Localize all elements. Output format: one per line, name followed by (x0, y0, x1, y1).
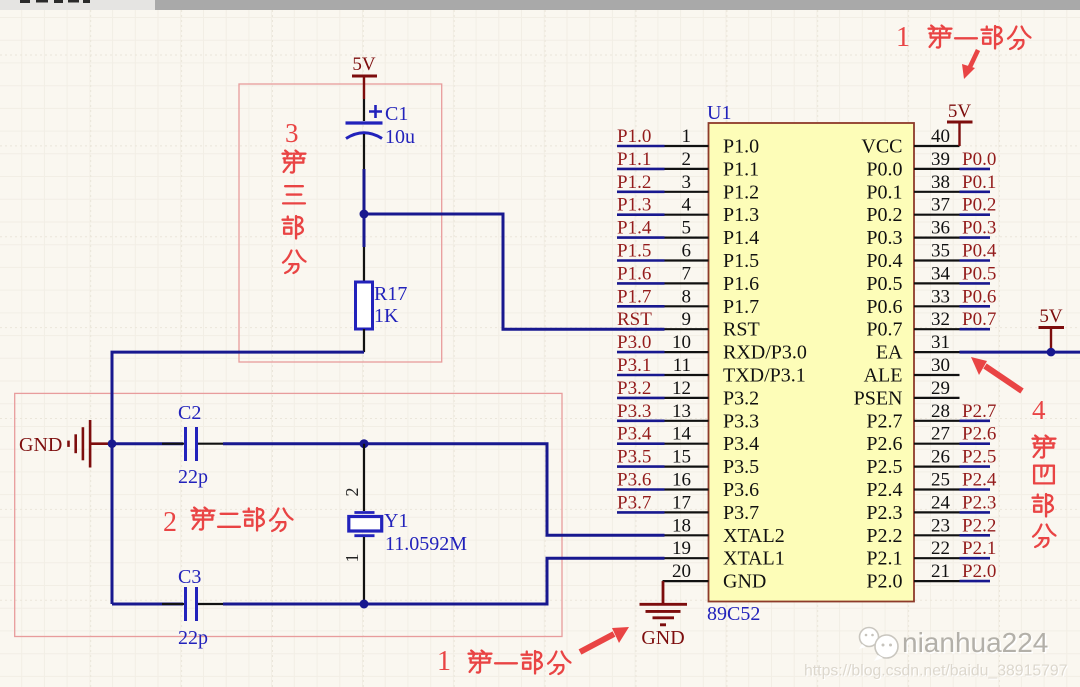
ground at pin 20 (640, 581, 688, 649)
crystal Y1 11.0592M (342, 444, 467, 604)
pin 34 P0.5 (866, 263, 959, 295)
pin 12 P3.2 (665, 378, 760, 410)
pin 30 ALE (864, 355, 960, 387)
capacitor C2 22p (112, 402, 223, 488)
pin 33 P0.6 (866, 286, 959, 318)
svg-text:1: 1 (896, 22, 910, 53)
pin 7 P1.6 (665, 263, 760, 295)
svg-text:P3.7: P3.7 (723, 502, 759, 524)
svg-text:P2.3: P2.3 (866, 502, 902, 524)
net label P2.4 (960, 470, 997, 491)
power 5V at EA (1039, 306, 1065, 352)
svg-text:P3.3: P3.3 (617, 401, 651, 422)
svg-text:10u: 10u (385, 126, 415, 148)
wire node to RST pin (364, 214, 665, 329)
svg-text:19: 19 (672, 538, 691, 559)
wire node to R17 (363, 214, 366, 247)
svg-text:P0.0: P0.0 (866, 158, 902, 180)
svg-text:37: 37 (931, 195, 950, 216)
net label P1.6 (617, 263, 665, 284)
pin 8 P1.7 (665, 286, 760, 318)
arrow to 5V (962, 50, 978, 79)
svg-text:2: 2 (682, 149, 692, 170)
wire net P1.2 (617, 191, 665, 194)
wire net P0.5 (960, 282, 991, 285)
svg-text:P0.6: P0.6 (866, 296, 902, 318)
svg-text:P1.4: P1.4 (723, 227, 759, 249)
svg-text:20: 20 (672, 561, 691, 582)
pin 19 XTAL1 (665, 538, 785, 570)
wire net P1.6 (617, 282, 665, 285)
svg-text:24: 24 (931, 492, 951, 513)
svg-text:P2.0: P2.0 (866, 571, 902, 593)
net label P1.3 (617, 195, 665, 216)
svg-text:P1.7: P1.7 (617, 286, 651, 307)
net label P1.2 (617, 172, 665, 193)
svg-text:nianhua224: nianhua224 (902, 627, 1048, 658)
pin 13 P3.3 (665, 401, 760, 433)
net label P2.5 (960, 447, 997, 468)
node crystal top junction (360, 439, 369, 448)
net label P2.6 (960, 424, 997, 445)
wire net P2.5 (960, 465, 991, 468)
svg-text:P2.2: P2.2 (866, 525, 902, 547)
annotation box part 3 (239, 84, 442, 362)
svg-text:1K: 1K (374, 305, 399, 327)
svg-text:P1.2: P1.2 (617, 172, 651, 193)
net label P0.0 (960, 149, 997, 170)
annotation 2 second part (163, 507, 292, 538)
svg-text:Y1: Y1 (384, 510, 408, 532)
svg-text:14: 14 (672, 424, 692, 445)
wire C3 to XTAL1 (223, 558, 665, 604)
net label P3.3 (617, 401, 665, 422)
pin 40 VCC (861, 126, 959, 158)
svg-text:15: 15 (672, 447, 691, 468)
svg-text:5V: 5V (948, 101, 972, 122)
pin 11 TXD/P3.1 (665, 355, 806, 387)
svg-text:22p: 22p (178, 627, 208, 649)
svg-text:5: 5 (682, 218, 692, 239)
pin 14 P3.4 (665, 424, 760, 456)
svg-text:P0.1: P0.1 (962, 172, 996, 193)
resistor R17 1K (356, 247, 408, 352)
net label P1.0 (617, 126, 665, 147)
pin 28 P2.7 (866, 401, 959, 433)
wire net P2.7 (960, 419, 991, 422)
svg-text:P3.5: P3.5 (723, 456, 759, 478)
pin 2 P1.1 (665, 149, 760, 181)
pin 17 P3.7 (665, 492, 760, 524)
watermark logo (859, 628, 898, 662)
svg-text:P1.4: P1.4 (617, 218, 652, 239)
designator U1 (707, 102, 731, 124)
wire net P3.6 (617, 488, 665, 491)
svg-text:P3.1: P3.1 (617, 355, 651, 376)
svg-text:P2.4: P2.4 (962, 470, 997, 491)
svg-text:2: 2 (342, 488, 362, 497)
svg-text:1: 1 (342, 554, 362, 563)
annotation box part 2 (15, 393, 562, 636)
net label P2.0 (960, 561, 997, 582)
svg-text:5V: 5V (352, 54, 376, 75)
svg-text:4: 4 (682, 195, 692, 216)
svg-text:U1: U1 (707, 102, 731, 124)
wire net P1.4 (617, 236, 665, 239)
wire net P3.2 (617, 397, 665, 400)
wire net P2.1 (960, 557, 991, 560)
node RST net junction (360, 210, 369, 219)
svg-text:P1.5: P1.5 (617, 241, 651, 262)
svg-text:2: 2 (163, 507, 177, 538)
svg-text:23: 23 (931, 515, 950, 536)
svg-text:1: 1 (437, 646, 451, 677)
wire net P3.1 (617, 374, 665, 377)
svg-text:40: 40 (931, 126, 950, 147)
svg-text:10: 10 (672, 332, 691, 353)
net label P1.7 (617, 286, 665, 307)
svg-text:RXD/P3.0: RXD/P3.0 (723, 342, 807, 364)
wire net P1.5 (617, 259, 665, 262)
pin 23 P2.2 (866, 515, 959, 547)
value label 89C52 (707, 603, 760, 625)
svg-text:XTAL2: XTAL2 (723, 525, 785, 547)
pin 35 P0.4 (866, 241, 959, 273)
svg-text:P3.0: P3.0 (617, 332, 651, 353)
wire net P3.0 (617, 351, 665, 354)
net label P0.1 (960, 172, 997, 193)
watermark text (804, 627, 1069, 681)
svg-text:38: 38 (931, 172, 950, 193)
svg-text:P0.2: P0.2 (962, 195, 996, 216)
svg-text:P2.6: P2.6 (866, 433, 902, 455)
wire net P3.7 (617, 511, 665, 514)
svg-text:P1.0: P1.0 (723, 136, 759, 158)
svg-text:https://blog.csdn.net/baidu_38: https://blog.csdn.net/baidu_38915797 (804, 663, 1068, 680)
wire net P0.6 (960, 305, 991, 308)
pin 18 XTAL2 (665, 515, 785, 547)
svg-text:12: 12 (672, 378, 691, 399)
capacitor C1 10u (346, 99, 416, 169)
svg-text:22: 22 (931, 538, 950, 559)
wire net P3.4 (617, 442, 665, 445)
svg-text:P0.7: P0.7 (866, 319, 902, 341)
svg-text:GND: GND (641, 627, 684, 649)
svg-text:GND: GND (19, 434, 62, 456)
svg-text:P2.7: P2.7 (866, 410, 902, 432)
wire net P2.6 (960, 442, 991, 445)
svg-text:6: 6 (682, 241, 692, 262)
svg-text:P2.5: P2.5 (866, 456, 902, 478)
svg-text:33: 33 (931, 286, 950, 307)
pin 29 PSEN (854, 378, 960, 410)
svg-text:29: 29 (931, 378, 950, 399)
wire net P1.7 (617, 305, 665, 308)
svg-text:P1.0: P1.0 (617, 126, 651, 147)
annotation 1 first part top (896, 22, 1030, 53)
power 5V at C1 (352, 54, 377, 99)
svg-text:18: 18 (672, 515, 691, 536)
ground GND net left (19, 420, 112, 468)
svg-text:21: 21 (931, 561, 950, 582)
net label P0.5 (960, 263, 997, 284)
wire net P2.2 (960, 534, 991, 537)
svg-text:35: 35 (931, 241, 950, 262)
net label P3.7 (617, 492, 665, 513)
svg-text:P3.2: P3.2 (723, 387, 759, 409)
node EA junction (1047, 348, 1056, 357)
svg-text:EA: EA (876, 342, 903, 364)
op-amp U1 89C52 chip body (709, 123, 915, 602)
svg-text:ALE: ALE (864, 365, 903, 387)
power 5V at pin 40 (947, 101, 973, 146)
net label P2.2 (960, 515, 997, 536)
svg-text:39: 39 (931, 149, 950, 170)
svg-text:9: 9 (682, 309, 692, 330)
wire net P2.4 (960, 488, 991, 491)
net label P3.0 (617, 332, 665, 353)
svg-text:GND: GND (723, 571, 766, 593)
svg-text:11.0592M: 11.0592M (385, 533, 467, 555)
net label P3.1 (617, 355, 665, 376)
svg-text:28: 28 (931, 401, 950, 422)
svg-text:P0.2: P0.2 (866, 204, 902, 226)
pin 10 RXD/P3.0 (665, 332, 807, 364)
svg-text:P3.4: P3.4 (617, 424, 652, 445)
svg-text:C3: C3 (178, 566, 201, 588)
net label P0.2 (960, 195, 997, 216)
net label P1.1 (617, 149, 665, 170)
svg-text:31: 31 (931, 332, 950, 353)
svg-text:C2: C2 (178, 402, 201, 424)
wire net P0.2 (960, 213, 991, 216)
svg-text:P0.1: P0.1 (866, 181, 902, 203)
pin 26 P2.5 (866, 447, 959, 479)
wire net P1.3 (617, 213, 665, 216)
annotation 3 third part (283, 118, 306, 273)
pin 6 P1.5 (665, 241, 760, 273)
svg-text:P0.3: P0.3 (866, 227, 902, 249)
pin 22 P2.1 (866, 538, 959, 570)
wire net P1.0 (617, 145, 665, 148)
pin 31 EA (876, 332, 960, 364)
net label P3.6 (617, 470, 665, 491)
svg-text:P0.7: P0.7 (962, 309, 996, 330)
pin 32 P0.7 (866, 309, 959, 341)
pin 25 P2.4 (866, 470, 959, 502)
svg-text:RST: RST (617, 309, 652, 330)
svg-text:P3.6: P3.6 (617, 470, 651, 491)
svg-text:P2.0: P2.0 (962, 561, 996, 582)
svg-text:30: 30 (931, 355, 950, 376)
pin 36 P0.3 (866, 218, 959, 250)
net label P0.6 (960, 286, 997, 307)
svg-text:PSEN: PSEN (854, 387, 903, 409)
svg-text:89C52: 89C52 (707, 603, 760, 625)
svg-text:P3.7: P3.7 (617, 492, 651, 513)
wire net P0.7 (960, 328, 991, 331)
svg-text:P2.1: P2.1 (866, 548, 902, 570)
pin 37 P0.2 (866, 195, 959, 227)
svg-text:16: 16 (672, 470, 691, 491)
pin 16 P3.6 (665, 470, 760, 502)
svg-text:11: 11 (673, 355, 691, 376)
net label P0.3 (960, 218, 997, 239)
net label P2.1 (960, 538, 997, 559)
arrow to GND (580, 627, 629, 652)
svg-text:3: 3 (682, 172, 692, 193)
pin 24 P2.3 (866, 492, 959, 524)
svg-text:P1.1: P1.1 (617, 149, 651, 170)
svg-text:P2.2: P2.2 (962, 515, 996, 536)
net label P1.4 (617, 218, 665, 239)
svg-text:17: 17 (672, 492, 691, 513)
svg-text:P1.1: P1.1 (723, 158, 759, 180)
pin 27 P2.6 (866, 424, 959, 456)
svg-text:VCC: VCC (861, 136, 902, 158)
net label P2.3 (960, 492, 997, 513)
pin 3 P1.2 (665, 172, 760, 204)
svg-text:P1.6: P1.6 (723, 273, 759, 295)
net label P3.5 (617, 447, 665, 468)
pin 15 P3.5 (665, 447, 760, 479)
pin 4 P1.3 (665, 195, 760, 227)
svg-text:P3.6: P3.6 (723, 479, 759, 501)
annotation 4 fourth part (1032, 395, 1055, 547)
svg-text:P0.6: P0.6 (962, 286, 996, 307)
wire net P1.1 (617, 168, 665, 171)
arrow to EA wire (971, 357, 1022, 391)
svg-text:R17: R17 (374, 283, 407, 305)
svg-text:P2.5: P2.5 (962, 447, 996, 468)
svg-text:7: 7 (682, 263, 692, 284)
wire net P2.3 (960, 511, 991, 514)
wire net P3.3 (617, 419, 665, 422)
wire net P0.4 (960, 259, 991, 262)
svg-text:C1: C1 (385, 103, 408, 125)
svg-text:P3.5: P3.5 (617, 447, 651, 468)
svg-text:P2.7: P2.7 (962, 401, 996, 422)
svg-text:P0.4: P0.4 (866, 250, 902, 272)
svg-text:P1.5: P1.5 (723, 250, 759, 272)
wire C1 to node (363, 169, 366, 214)
net label P3.4 (617, 424, 665, 445)
wire C2 to XTAL2 (223, 444, 665, 536)
net label RST (617, 309, 652, 330)
net label P0.7 (960, 309, 997, 330)
pin 38 P0.1 (866, 172, 959, 204)
svg-text:34: 34 (931, 263, 951, 284)
svg-text:P2.1: P2.1 (962, 538, 996, 559)
svg-text:RST: RST (723, 319, 760, 341)
wire net P3.5 (617, 465, 665, 468)
svg-text:13: 13 (672, 401, 691, 422)
svg-text:8: 8 (682, 286, 692, 307)
svg-text:P1.7: P1.7 (723, 296, 759, 318)
wire R17 to ground rail (112, 352, 364, 604)
net label P2.7 (960, 401, 997, 422)
svg-text:P2.3: P2.3 (962, 492, 996, 513)
net label P0.4 (960, 241, 997, 262)
svg-text:5V: 5V (1039, 306, 1063, 327)
pin 21 P2.0 (866, 561, 959, 593)
pin 1 P1.0 (665, 126, 760, 158)
wire net P0.1 (960, 191, 991, 194)
svg-text:XTAL1: XTAL1 (723, 548, 785, 570)
svg-text:P0.0: P0.0 (962, 149, 996, 170)
svg-text:P0.5: P0.5 (866, 273, 902, 295)
svg-text:4: 4 (1032, 395, 1046, 425)
svg-text:1: 1 (682, 126, 692, 147)
svg-text:27: 27 (931, 424, 950, 445)
svg-text:P1.3: P1.3 (617, 195, 651, 216)
svg-text:P0.4: P0.4 (962, 241, 997, 262)
svg-text:TXD/P3.1: TXD/P3.1 (723, 365, 806, 387)
wire EA to 5V (960, 351, 1080, 354)
node crystal bottom junction (360, 600, 369, 609)
svg-text:P1.6: P1.6 (617, 263, 651, 284)
svg-text:P1.2: P1.2 (723, 181, 759, 203)
svg-text:P3.3: P3.3 (723, 410, 759, 432)
svg-text:25: 25 (931, 470, 950, 491)
wire net P0.0 (960, 168, 991, 171)
svg-text:32: 32 (931, 309, 950, 330)
pin 20 GND (663, 561, 767, 593)
net label P1.5 (617, 241, 665, 262)
pin 5 P1.4 (665, 218, 760, 250)
svg-text:3: 3 (285, 118, 299, 148)
svg-text:P2.6: P2.6 (962, 424, 996, 445)
pin 39 P0.0 (866, 149, 959, 181)
net label P3.2 (617, 378, 665, 399)
svg-text:P0.3: P0.3 (962, 218, 996, 239)
pin 9 RST (665, 309, 760, 341)
svg-text:P2.4: P2.4 (866, 479, 902, 501)
capacitor C3 22p (112, 566, 223, 649)
svg-text:P0.5: P0.5 (962, 263, 996, 284)
svg-text:P1.3: P1.3 (723, 204, 759, 226)
svg-text:26: 26 (931, 447, 950, 468)
annotation 1 first part bottom (437, 646, 570, 677)
svg-text:22p: 22p (178, 466, 208, 488)
wire net P0.3 (960, 236, 991, 239)
svg-text:P3.2: P3.2 (617, 378, 651, 399)
node ground rail junction (108, 439, 117, 448)
wire net P2.0 (960, 580, 991, 583)
svg-text:P3.4: P3.4 (723, 433, 759, 455)
svg-text:36: 36 (931, 218, 950, 239)
